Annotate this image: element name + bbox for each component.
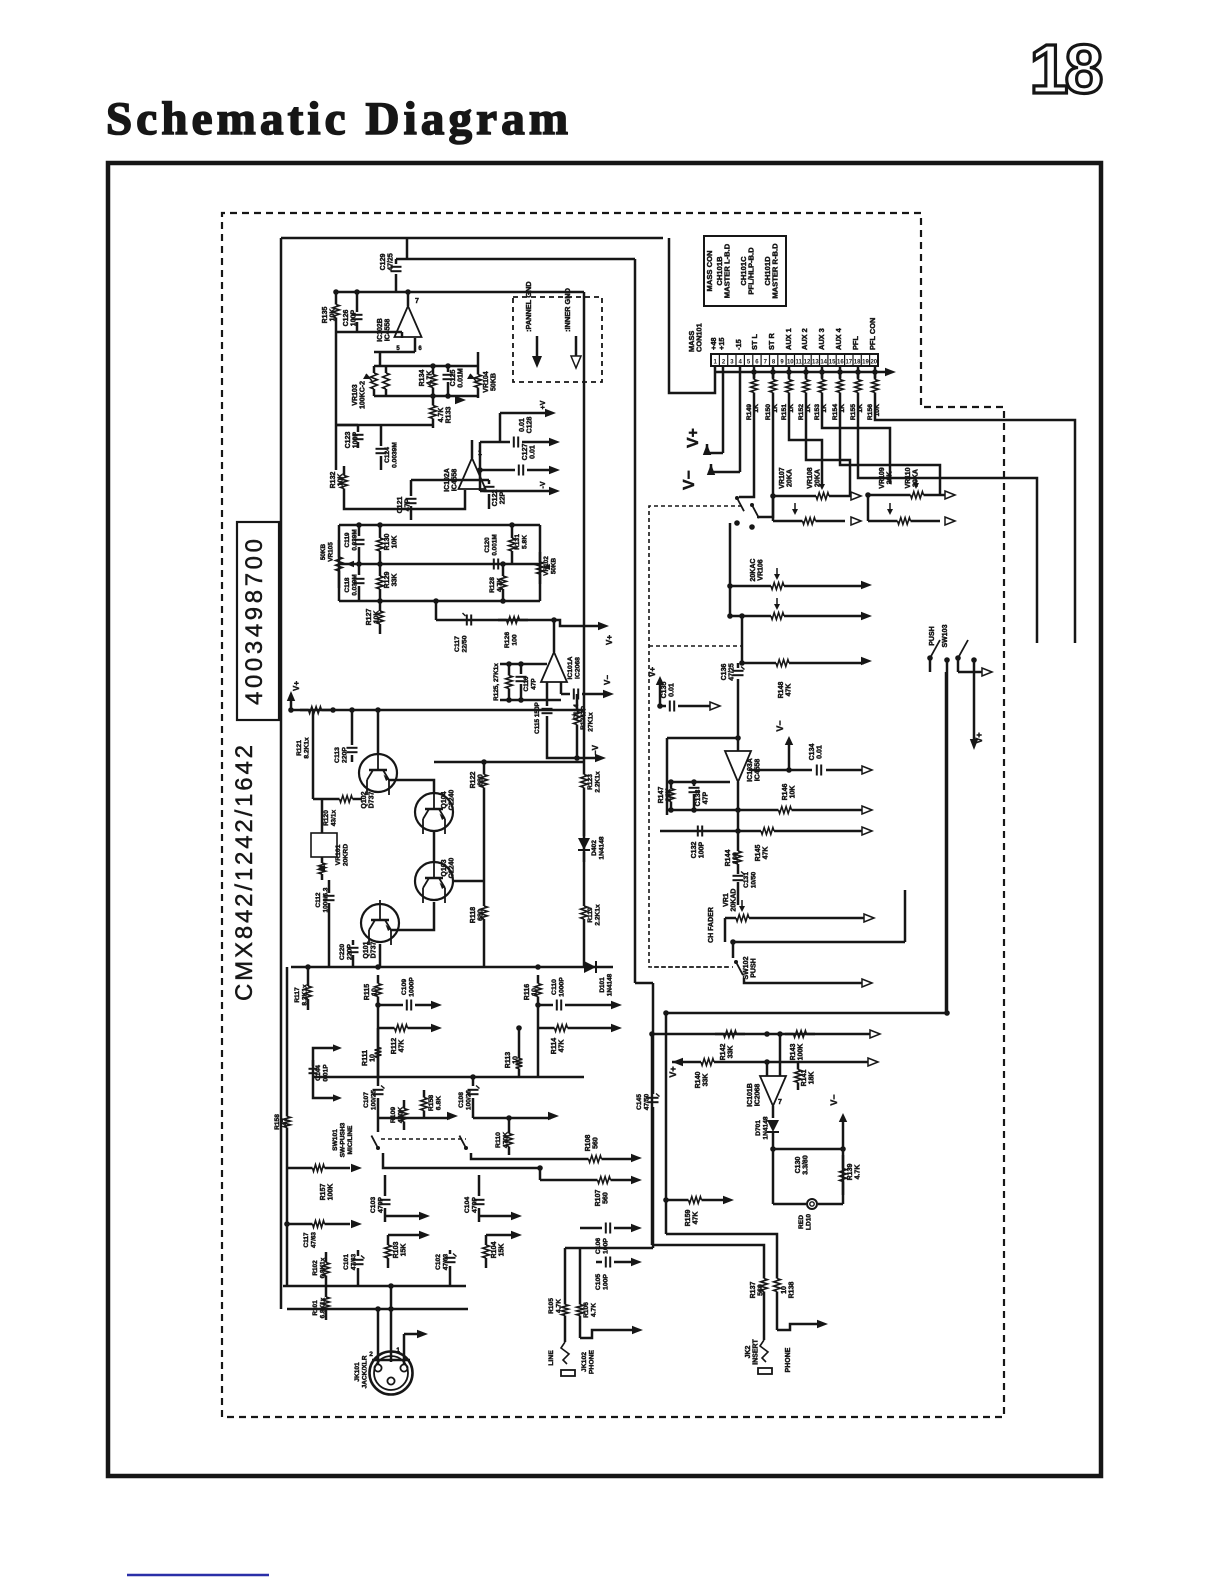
-V arrow mid <box>560 757 598 760</box>
wire xlr pin2 feed <box>377 1309 380 1364</box>
svg-text:11: 11 <box>796 360 803 366</box>
svg-text:R129: R129 <box>384 572 391 589</box>
wire c129 feed <box>406 238 409 259</box>
capacitor C125 <box>447 366 450 372</box>
svg-text:V+: V+ <box>292 681 301 691</box>
resistor R123 <box>583 762 586 775</box>
panel ground symbol <box>536 336 539 357</box>
svg-text:SW101: SW101 <box>332 1129 339 1151</box>
diode D402 <box>583 820 586 836</box>
wire r132 col <box>344 490 465 509</box>
svg-text:15K: 15K <box>499 1244 506 1257</box>
wire ic103 input rail <box>667 781 730 784</box>
svg-text:8.2K1x: 8.2K1x <box>304 737 311 759</box>
svg-text:7: 7 <box>764 360 768 366</box>
svg-text:1000P: 1000P <box>559 977 566 997</box>
svg-text:9: 9 <box>780 360 784 366</box>
capacitor C128 <box>480 441 510 444</box>
wire staircase 8 <box>875 400 1075 643</box>
resistor R122 <box>483 762 486 775</box>
svg-text:C112: C112 <box>315 892 322 907</box>
svg-text:MASS CON: MASS CON <box>705 251 714 292</box>
svg-text:47K: 47K <box>786 684 793 697</box>
capacitor C220 <box>352 940 355 945</box>
svg-text:R158: R158 <box>274 1114 281 1130</box>
svg-text:100/26: 100/26 <box>466 1090 473 1111</box>
svg-text:100KC-2: 100KC-2 <box>360 381 367 409</box>
svg-text:5.8K: 5.8K <box>522 535 529 549</box>
capacitor C110 <box>538 1004 553 1007</box>
svg-text:JK2: JK2 <box>745 1345 752 1358</box>
capacitor C135 <box>658 705 666 708</box>
svg-text:C101: C101 <box>343 1254 350 1270</box>
svg-text:IC101B: IC101B <box>747 1083 754 1107</box>
op-amp IC103A <box>725 751 751 782</box>
svg-text:6: 6 <box>755 360 759 366</box>
resistor R150 <box>772 366 775 378</box>
pot VR109 <box>894 494 911 497</box>
svg-text:R156: R156 <box>867 404 874 420</box>
svg-text:1: 1 <box>396 1347 400 1354</box>
svg-text:1N4148: 1N4148 <box>763 1116 770 1139</box>
svg-text:AUX 4: AUX 4 <box>834 327 843 350</box>
op-amp IC102A <box>459 458 486 489</box>
svg-text:C135: C135 <box>661 682 668 699</box>
resistor R158 <box>423 1090 426 1098</box>
capacitor C103 <box>384 1175 387 1196</box>
pot VR102 <box>539 552 542 562</box>
svg-text:R113: R113 <box>505 1052 512 1068</box>
svg-text:C121: C121 <box>397 497 404 514</box>
svg-text:6.8K: 6.8K <box>436 1096 443 1110</box>
svg-text:8.2K1x: 8.2K1x <box>302 984 309 1006</box>
capacitor C108 <box>468 1089 479 1091</box>
wire pan right <box>868 495 894 521</box>
LED LD10 <box>773 1203 806 1206</box>
wire +v arrows block <box>500 412 548 415</box>
svg-text:VR103: VR103 <box>352 384 359 406</box>
svg-text:10K: 10K <box>374 611 381 624</box>
svg-text:10: 10 <box>781 1286 788 1294</box>
svg-text:PHONE: PHONE <box>785 1347 792 1372</box>
svg-text:12: 12 <box>804 360 811 366</box>
svg-text:0.01: 0.01 <box>530 445 537 459</box>
svg-text:100P: 100P <box>351 310 358 327</box>
svg-text:C130: C130 <box>795 1157 802 1174</box>
transistor Q101 <box>361 904 399 942</box>
capacitor C145 <box>648 1097 659 1099</box>
svg-text:47/25: 47/25 <box>388 253 395 271</box>
svg-text:10K: 10K <box>338 474 345 487</box>
svg-text:C127: C127 <box>522 444 529 461</box>
svg-text:+V: +V <box>540 400 547 409</box>
wire block right boundary <box>634 259 637 983</box>
svg-text:27K1x: 27K1x <box>588 712 595 732</box>
pot VR110 <box>868 520 898 523</box>
resistor R113 <box>518 1050 521 1059</box>
wire emitters rail <box>291 966 613 969</box>
capacitor C121 <box>410 480 413 496</box>
svg-text:Q103: Q103 <box>441 859 448 876</box>
transistor Q103 <box>415 862 453 900</box>
svg-text:6: 6 <box>418 346 422 352</box>
wire mid vertical <box>737 782 740 845</box>
svg-text:C123: C123 <box>345 432 352 449</box>
svg-text:20KAD: 20KAD <box>731 889 738 912</box>
svg-text:2: 2 <box>722 360 726 366</box>
svg-text:R110: R110 <box>495 1132 502 1148</box>
svg-text:R152: R152 <box>798 404 805 420</box>
resistor R151 <box>788 366 791 378</box>
svg-text:10: 10 <box>372 988 379 996</box>
svg-text:Schematic Diagram: Schematic Diagram <box>106 93 568 145</box>
svg-text:15: 15 <box>829 360 836 366</box>
svg-text:R117: R117 <box>294 987 301 1003</box>
svg-text:220P: 220P <box>347 944 354 960</box>
capacitor C107 <box>373 1089 384 1091</box>
svg-text:3: 3 <box>730 360 734 366</box>
wire staircase 2 <box>757 400 773 517</box>
resistor R153 <box>821 366 824 378</box>
resistor R133 <box>432 396 435 406</box>
svg-text:D737: D737 <box>371 942 378 959</box>
svg-text:R143: R143 <box>790 1044 797 1061</box>
svg-text:33K: 33K <box>703 1074 710 1087</box>
svg-text:43/1x: 43/1x <box>331 809 338 826</box>
svg-text:C109: C109 <box>401 979 408 995</box>
svg-text:SW102: SW102 <box>743 956 750 979</box>
svg-text:4.7K: 4.7K <box>556 1299 563 1313</box>
resistor R132 <box>343 466 346 476</box>
resistor R124 <box>576 700 579 712</box>
svg-text:R114: R114 <box>551 1038 558 1054</box>
svg-text:R111: R111 <box>362 1050 369 1066</box>
V- arrow c130 <box>842 1117 845 1149</box>
svg-text:10: 10 <box>532 988 539 996</box>
svg-text:0.01P: 0.01P <box>323 1064 330 1082</box>
wire staircase 7 <box>858 400 1037 643</box>
svg-text:PHONE: PHONE <box>589 1349 596 1374</box>
resistor R141 <box>797 1062 800 1070</box>
svg-text:R140: R140 <box>695 1072 702 1089</box>
transistor Q102 <box>359 754 397 792</box>
svg-text:R105: R105 <box>548 1298 555 1314</box>
svg-text:1: 1 <box>1030 30 1069 108</box>
svg-text:R132: R132 <box>330 472 337 489</box>
svg-text:10K: 10K <box>392 536 399 549</box>
svg-text:1: 1 <box>714 360 718 366</box>
svg-text:C124: C124 <box>384 447 391 463</box>
svg-text:CH FADER: CH FADER <box>708 907 715 943</box>
pot VR108 <box>773 520 803 523</box>
svg-text:+15: +15 <box>717 337 726 350</box>
svg-text:IC102B: IC102B <box>377 318 384 342</box>
svg-text:V+: V+ <box>605 635 614 645</box>
svg-text:D701: D701 <box>755 1120 762 1136</box>
svg-text:24K: 24K <box>666 789 673 802</box>
resistor R159b <box>286 1108 289 1117</box>
resistor R148 <box>742 662 760 665</box>
svg-text:0.01: 0.01 <box>669 683 676 697</box>
svg-text:0.001M: 0.001M <box>492 534 499 555</box>
pot VR101 <box>311 833 337 857</box>
wire left col B <box>665 1013 668 1234</box>
svg-text:VR104: VR104 <box>483 371 490 393</box>
svg-text:R112: R112 <box>391 1038 398 1054</box>
inner ground symbol <box>575 336 578 357</box>
svg-text:8: 8 <box>1065 30 1104 108</box>
svg-text:100/25: 100/25 <box>371 1090 378 1111</box>
resistor R105 <box>564 1294 567 1305</box>
svg-text:5: 5 <box>747 360 751 366</box>
svg-text:LINE: LINE <box>548 1350 555 1366</box>
capacitor C101 <box>353 1259 364 1261</box>
capacitor C102 <box>445 1257 456 1259</box>
resistor R139 <box>842 1155 845 1169</box>
resistor R111 <box>377 1028 380 1048</box>
svg-text:Q101: Q101 <box>363 941 370 958</box>
wire bottom buses <box>283 1285 466 1288</box>
wire y1118 rail <box>378 1117 450 1120</box>
wire c103 arrow <box>385 1215 420 1218</box>
svg-text:VR109: VR109 <box>879 467 886 489</box>
wire left col A <box>651 1034 654 1245</box>
svg-text:4.7K: 4.7K <box>427 371 434 386</box>
svg-text:C102: C102 <box>435 1254 442 1270</box>
svg-text:20K: 20K <box>887 472 894 485</box>
svg-text:100P: 100P <box>353 432 360 449</box>
capacitor C120 <box>493 559 495 570</box>
capacitor C144 <box>313 1048 334 1098</box>
svg-text:AUX 3: AUX 3 <box>817 328 826 350</box>
svg-text:PFL CON: PFL CON <box>868 318 877 350</box>
svg-text:R138: R138 <box>789 1282 796 1299</box>
svg-text:C106: C106 <box>595 1238 602 1254</box>
diode D701 <box>772 1106 775 1118</box>
svg-text:C145: C145 <box>636 1094 643 1110</box>
svg-text:R139: R139 <box>847 1164 854 1181</box>
wire staircase 1 <box>739 400 754 497</box>
svg-text:SW103: SW103 <box>942 624 949 647</box>
svg-text:14: 14 <box>820 360 827 366</box>
legend box panel/inner gnd <box>513 297 602 382</box>
svg-text:C115 150P: C115 150P <box>534 701 541 733</box>
svg-text:D402: D402 <box>591 840 598 856</box>
wire r125 rails <box>500 663 547 666</box>
svg-text:R137: R137 <box>750 1282 757 1299</box>
svg-text:JK101: JK101 <box>354 1362 361 1382</box>
svg-text:10: 10 <box>787 360 794 366</box>
wire sw output A <box>383 1153 540 1168</box>
svg-text:6.8K1x: 6.8K1x <box>320 1297 327 1318</box>
svg-text:0.01: 0.01 <box>519 418 526 432</box>
resistor R147 <box>670 782 673 789</box>
resistor R140 <box>690 1061 701 1064</box>
svg-text:10K: 10K <box>330 309 337 322</box>
svg-text:V+: V+ <box>668 1066 678 1077</box>
svg-text:C144: C144 <box>315 1065 322 1081</box>
svg-text:V+: V+ <box>974 732 984 743</box>
wire r122 top <box>434 761 484 764</box>
resistor R149 <box>753 366 756 378</box>
svg-text:100: 100 <box>512 634 519 646</box>
svg-text:R154: R154 <box>832 404 839 420</box>
svg-text:PUSH: PUSH <box>751 958 758 977</box>
svg-text:VR1: VR1 <box>723 893 730 907</box>
svg-text:C113: C113 <box>334 747 341 763</box>
resistor R134 <box>432 366 435 375</box>
resistor R146 <box>667 809 770 812</box>
resistor R138 <box>776 1270 779 1279</box>
svg-text:PUSH: PUSH <box>929 626 936 645</box>
wire vr106 down <box>741 616 744 663</box>
wire pan left <box>773 496 800 521</box>
svg-text:C2240: C2240 <box>449 790 456 811</box>
svg-text:16: 16 <box>837 360 844 366</box>
svg-text:CON101: CON101 <box>695 323 704 352</box>
resistor R159 <box>666 1199 680 1202</box>
outer border <box>108 163 1101 1476</box>
svg-text:47K: 47K <box>559 1040 566 1053</box>
capacitor C116 <box>520 664 523 674</box>
svg-text:R134: R134 <box>419 370 426 387</box>
wire mass feed <box>669 238 715 393</box>
resistor R128 <box>502 564 505 576</box>
svg-text:47K: 47K <box>399 1040 406 1053</box>
svg-text:MIC/LINE: MIC/LINE <box>347 1125 354 1155</box>
svg-text:C116: C116 <box>523 676 530 691</box>
svg-text:1N4148: 1N4148 <box>599 836 606 859</box>
svg-text:13: 13 <box>812 360 819 366</box>
svg-text:JACK/XLR: JACK/XLR <box>362 1355 369 1388</box>
jack JK102 PHONE <box>564 1326 567 1342</box>
svg-text:R104: R104 <box>491 1242 498 1259</box>
svg-text:R101: R101 <box>312 1300 319 1316</box>
capacitor C124 <box>380 425 383 446</box>
svg-text:Q104: Q104 <box>441 791 448 808</box>
svg-text:R119: R119 <box>587 907 594 923</box>
svg-text:560: 560 <box>603 1192 610 1204</box>
svg-text:RED: RED <box>798 1215 805 1229</box>
svg-text:R128: R128 <box>489 577 496 593</box>
svg-text:R102: R102 <box>312 1260 319 1276</box>
svg-text:IC2068: IC2068 <box>755 1084 762 1107</box>
wire sw102 out <box>744 978 864 983</box>
capacitor C134 <box>749 769 812 772</box>
svg-text:R122: R122 <box>470 772 477 789</box>
jack JK101 XLR <box>370 1352 413 1395</box>
resistor R156 <box>874 366 877 378</box>
footer blue line <box>127 1574 269 1577</box>
svg-text:R147: R147 <box>658 787 665 804</box>
svg-text:R120: R120 <box>323 810 330 826</box>
wire sw103 drops <box>929 658 932 672</box>
svg-text:C126: C126 <box>343 310 350 327</box>
pot VR107 <box>800 495 816 498</box>
wire c130 box <box>772 1149 775 1204</box>
svg-text:4.7K: 4.7K <box>497 578 504 592</box>
svg-text:D101: D101 <box>599 977 606 993</box>
svg-text:100P: 100P <box>603 1274 610 1290</box>
svg-text:4: 4 <box>739 360 743 366</box>
capacitor C115 <box>546 700 549 706</box>
svg-text:VR101: VR101 <box>335 844 342 865</box>
svg-text:2.2K1x: 2.2K1x <box>595 904 602 926</box>
switch SW pre/post A <box>735 496 739 500</box>
wire r147 bottom rail <box>660 830 745 833</box>
svg-text:Q102: Q102 <box>361 791 368 808</box>
svg-text:2.2K1x: 2.2K1x <box>595 771 602 793</box>
svg-text:15K: 15K <box>401 1244 408 1257</box>
wire left block outline <box>281 237 663 240</box>
wire opamp a bottom <box>411 479 489 482</box>
svg-text:R150: R150 <box>765 404 772 420</box>
op-amp IC101B <box>760 1076 786 1106</box>
svg-text:C120: C120 <box>484 537 491 553</box>
pot VR105 <box>338 540 341 557</box>
svg-text:ST L: ST L <box>750 334 759 350</box>
resistor R126 <box>498 619 507 622</box>
dashed fader section box <box>649 506 742 967</box>
svg-text:10: 10 <box>513 1056 520 1064</box>
svg-text:47/25: 47/25 <box>729 663 736 681</box>
capacitor C104 <box>478 1175 481 1196</box>
wire staircase 6 <box>840 400 940 495</box>
svg-text:R144: R144 <box>725 850 732 867</box>
svg-text:AUX 2: AUX 2 <box>800 328 809 350</box>
resistor R135 <box>335 292 338 305</box>
wire second arrow row <box>284 1221 290 1227</box>
svg-text:R106: R106 <box>583 1302 590 1318</box>
wire staircase 5 <box>822 400 890 484</box>
svg-text:47: 47 <box>282 1118 289 1126</box>
svg-text:22/50: 22/50 <box>462 635 469 652</box>
svg-text:VR110: VR110 <box>905 467 912 488</box>
svg-text:1000P: 1000P <box>409 977 416 997</box>
resistor R143 <box>785 1033 794 1036</box>
svg-text:R142: R142 <box>720 1044 727 1061</box>
resistor R106 <box>579 1294 582 1305</box>
svg-text:R118: R118 <box>470 907 477 923</box>
svg-text:50KB: 50KB <box>491 373 498 391</box>
resistor R101 <box>325 1286 328 1297</box>
transistor Q104 <box>415 793 453 831</box>
wire r157 row <box>287 1167 313 1170</box>
svg-text:C105: C105 <box>595 1274 602 1290</box>
svg-text:AUX 1: AUX 1 <box>784 328 793 350</box>
wire jog to insert jack <box>666 1234 777 1270</box>
V- arrow ic103a <box>788 740 791 770</box>
svg-text:R123: R123 <box>587 774 594 790</box>
wire rail y1062 <box>725 1061 870 1064</box>
svg-text:47K: 47K <box>693 1212 700 1225</box>
svg-text:R133: R133 <box>446 407 453 424</box>
wire filter out <box>435 601 438 620</box>
capacitor C131 <box>733 875 744 877</box>
svg-text::PANNEL GND: :PANNEL GND <box>524 281 533 332</box>
svg-text:R107: R107 <box>595 1190 602 1207</box>
capacitor C129 <box>395 259 398 264</box>
switch SW101 contact B <box>464 1146 468 1150</box>
svg-text:0.01M: 0.01M <box>458 368 465 388</box>
svg-text:R141: R141 <box>801 1070 808 1087</box>
wire r105 feed <box>564 1248 567 1294</box>
resistor R109 <box>403 1100 406 1109</box>
switch SW101 contact A <box>377 1118 380 1132</box>
resistor R131 <box>511 525 514 538</box>
wire -v arrow <box>480 490 552 493</box>
svg-text:19: 19 <box>862 360 869 366</box>
